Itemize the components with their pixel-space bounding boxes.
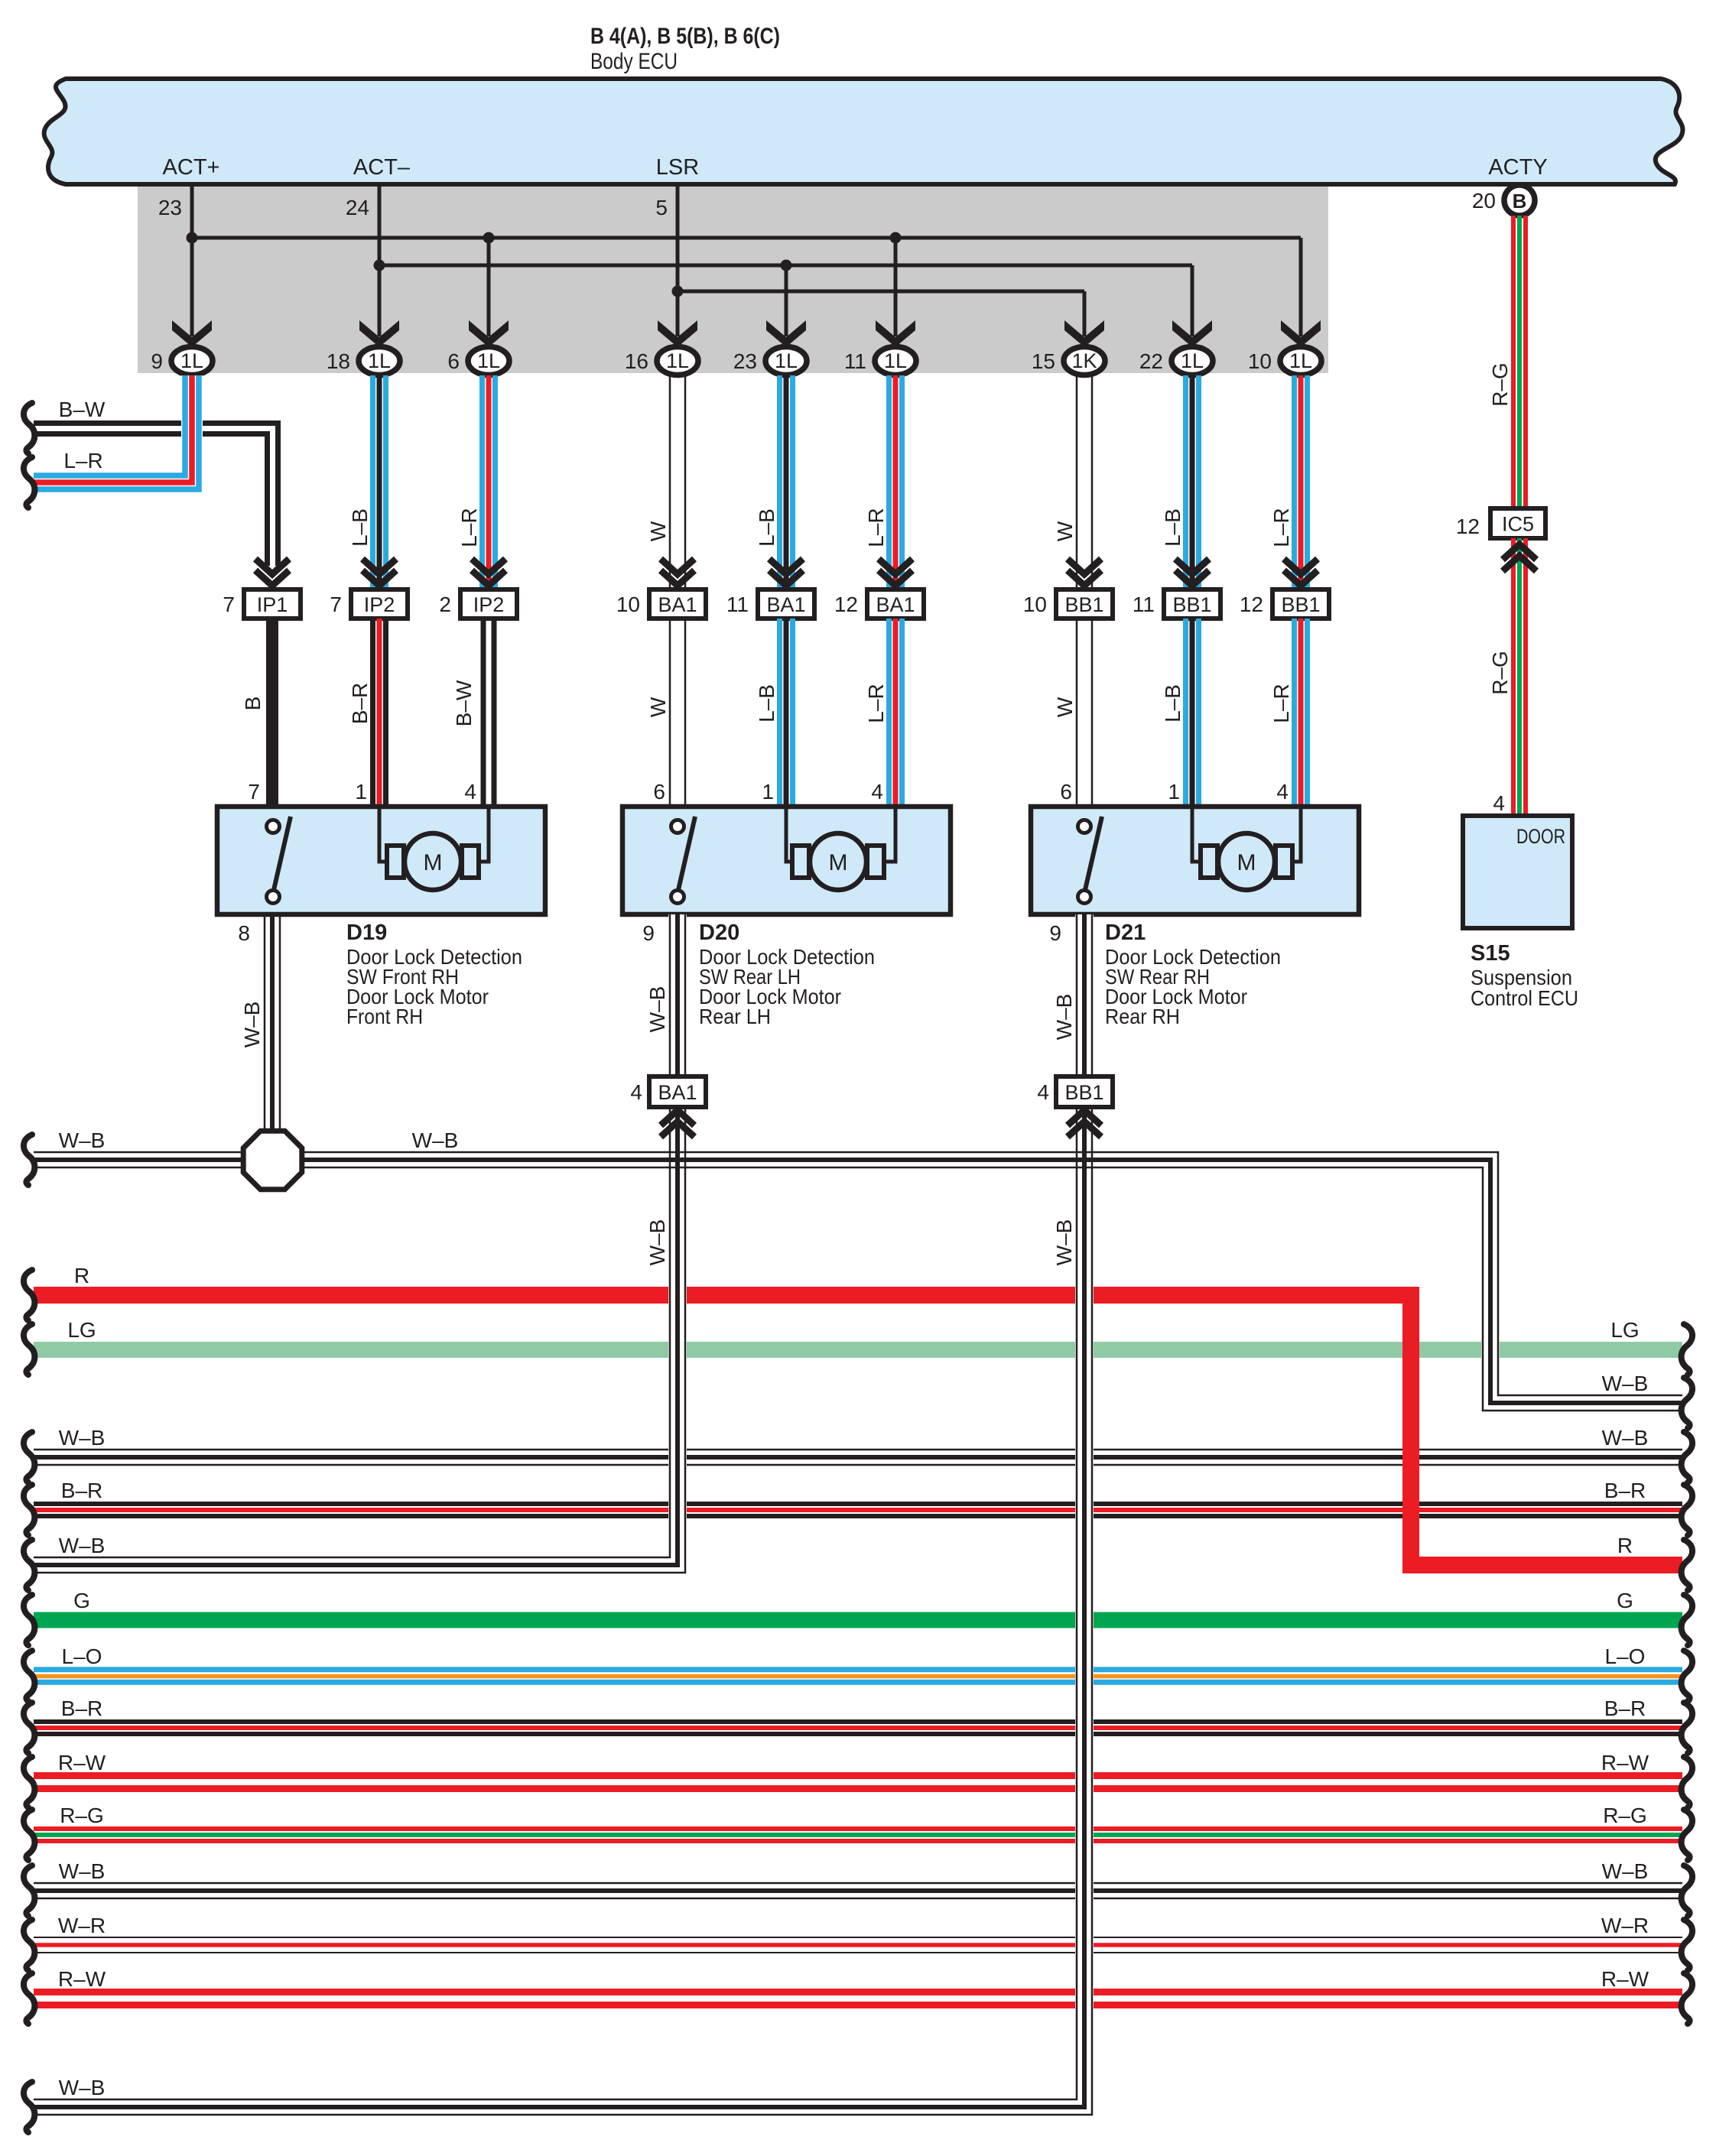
svg-text:9: 9 — [151, 349, 163, 373]
LSR bus wire — [678, 290, 1084, 294]
svg-text:1L: 1L — [775, 349, 798, 372]
ACT+ bus wire — [192, 236, 1301, 240]
arrow into connector at x=1028 — [769, 559, 803, 574]
break symbol B-R left — [24, 1703, 34, 1753]
motor M in D21 — [1201, 846, 1217, 878]
connector BA1 pin 12 — [867, 589, 924, 619]
wire drop to connector pin 10 — [1299, 238, 1303, 336]
svg-text:6: 6 — [447, 349, 460, 373]
svg-text:R–G: R–G — [1488, 362, 1512, 407]
svg-text:BA1: BA1 — [766, 593, 805, 616]
svg-text:24: 24 — [346, 196, 369, 219]
svg-text:Rear RH: Rear RH — [1105, 1005, 1180, 1028]
connector 1L pin 22 — [1172, 347, 1213, 375]
pin 24 wire stub — [378, 184, 382, 265]
svg-text:4: 4 — [871, 780, 883, 804]
break symbol W-B left — [24, 1865, 34, 1916]
svg-text:B–R: B–R — [1604, 1479, 1646, 1502]
connector 1L pin 11 — [875, 347, 916, 375]
break symbol W-R right — [1682, 1920, 1692, 1970]
break symbol W-R left — [24, 1920, 34, 1970]
arrow into connector at x=1418 — [1068, 559, 1101, 574]
connector IC5 pin 12 — [1490, 508, 1545, 538]
svg-text:IC5: IC5 — [1502, 513, 1534, 536]
svg-text:B–R: B–R — [61, 1697, 102, 1720]
svg-text:4: 4 — [1037, 1080, 1049, 1104]
svg-text:6: 6 — [1060, 780, 1072, 804]
wire B-R row 2 — [34, 1719, 1682, 1724]
svg-text:BB1: BB1 — [1064, 1081, 1103, 1104]
svg-text:IP1: IP1 — [257, 593, 288, 616]
svg-text:16: 16 — [625, 349, 648, 373]
wire W-B row (full width) — [34, 1449, 1682, 1451]
svg-text:DOOR: DOOR — [1516, 825, 1565, 848]
svg-text:BA1: BA1 — [658, 1081, 697, 1104]
svg-text:D20: D20 — [699, 921, 739, 945]
connector 1L pin 6 — [468, 347, 509, 375]
svg-text:W–B: W–B — [59, 2076, 106, 2099]
svg-text:W–B: W–B — [1602, 1859, 1649, 1883]
svg-text:W–B: W–B — [1052, 1219, 1076, 1266]
svg-text:BB1: BB1 — [1172, 593, 1211, 616]
break symbol R right — [1682, 1540, 1692, 1590]
svg-text:W–B: W–B — [1052, 994, 1076, 1041]
wire L-B from 1L-18 to IP2 — [370, 375, 375, 587]
motor wiring in D21 — [1192, 807, 1201, 862]
svg-text:W: W — [646, 521, 670, 541]
wire drop to connector pin 18 — [378, 265, 382, 336]
svg-text:W–B: W–B — [1602, 1372, 1649, 1395]
connector IP1 pin 7 — [244, 589, 301, 619]
wire L-R from 1L-6 to IP2 — [479, 375, 485, 587]
svg-text:L–R: L–R — [864, 683, 888, 722]
break symbol LG left — [24, 1324, 34, 1375]
break symbol R-W right — [1682, 1973, 1692, 2024]
wire W-B from D19 pin 8 to splice — [264, 914, 266, 1137]
wire L-R from BB1 to D21 pin 4 — [1292, 619, 1297, 807]
svg-text:IP2: IP2 — [364, 593, 395, 616]
svg-text:1L: 1L — [884, 349, 907, 372]
ACT- bus wire — [379, 264, 1192, 268]
break symbol LG right — [1682, 1324, 1692, 1375]
break symbol W-B right — [1682, 1432, 1692, 1482]
arrow into BA1-4 — [661, 1110, 694, 1125]
svg-text:ACT+: ACT+ — [163, 155, 220, 180]
arrow into BB1-4 — [1068, 1110, 1101, 1125]
wire B-W entering from left, to IP1 — [34, 424, 278, 567]
splice (octagon) — [243, 1131, 302, 1190]
wire LG row — [34, 1342, 1682, 1358]
svg-text:1: 1 — [1168, 780, 1180, 804]
svg-text:1L: 1L — [180, 349, 203, 372]
svg-text:L–O: L–O — [62, 1645, 102, 1668]
connector BA1 pin 4 — [649, 1076, 706, 1107]
connector IP2 pin 2 — [460, 589, 517, 619]
wire W-B row 3 — [34, 1882, 1682, 1885]
break symbol R left — [24, 1270, 34, 1320]
break symbol B-W — [24, 403, 34, 453]
door lock assembly D21 — [1031, 807, 1359, 914]
pin 5 wire stub — [676, 184, 680, 291]
suspension control ECU S15 — [1463, 816, 1572, 928]
wire G row — [34, 1612, 1682, 1628]
wire R-G row — [34, 1826, 1682, 1831]
wire W from 1K-15 to BB1 — [1076, 375, 1078, 587]
svg-text:L–R: L–R — [457, 508, 481, 547]
break symbol R-W left — [24, 1973, 34, 2024]
svg-text:7: 7 — [248, 780, 260, 804]
wire W-B from D21 via BB1-4 down, turns left to exit — [1075, 914, 1094, 2098]
break symbol W-B left — [24, 1432, 34, 1482]
svg-text:W: W — [646, 696, 670, 717]
arrow into connector at x=356 — [255, 559, 289, 574]
svg-text:R–G: R–G — [60, 1804, 104, 1827]
pin 23 wire stub — [190, 184, 194, 238]
svg-text:1L: 1L — [477, 349, 500, 372]
Body ECU band B4(A)/B5(B)/B6(C) — [44, 79, 1683, 184]
svg-text:1K: 1K — [1071, 349, 1097, 372]
svg-text:11: 11 — [844, 349, 866, 373]
break symbol W-B right exit — [1682, 1378, 1692, 1428]
break symbol G left — [24, 1595, 34, 1645]
wire drop to connector pin 9 — [190, 238, 194, 336]
svg-text:W: W — [1053, 696, 1077, 717]
wire R-G from B-20 to IC5 — [1511, 216, 1516, 508]
svg-text:20: 20 — [1472, 189, 1496, 213]
wire B-R from IP2 to D19 pin 1 — [370, 619, 375, 807]
motor wiring in D20 — [786, 807, 793, 862]
break symbol B-R right — [1682, 1703, 1692, 1753]
svg-text:W–B: W–B — [645, 1219, 669, 1266]
wire R-W row 2 — [34, 1989, 1682, 1995]
connector B pin 20 (ACTY) — [1518, 184, 1522, 188]
wire L-B from 1L-23 to BA1 — [777, 375, 782, 587]
svg-text:R–G: R–G — [1603, 1804, 1647, 1827]
wire W-B from D20 via BA1-4 down, turns left to exit — [668, 914, 687, 1560]
svg-text:Body ECU: Body ECU — [590, 49, 678, 74]
break symbol L-O left — [24, 1651, 34, 1701]
wire W from BB1 to D21 pin 6 — [1076, 619, 1078, 807]
svg-text:G: G — [73, 1589, 90, 1612]
svg-text:9: 9 — [1049, 921, 1061, 945]
wire L-O row — [34, 1667, 1682, 1672]
svg-text:Control ECU: Control ECU — [1471, 986, 1578, 1010]
wire drop to connector pin 16 — [676, 291, 680, 336]
svg-text:R: R — [74, 1264, 89, 1287]
svg-text:4: 4 — [1276, 780, 1289, 804]
svg-text:LG: LG — [67, 1318, 96, 1342]
svg-text:15: 15 — [1032, 349, 1055, 373]
arrowhead into connector pin 6 — [469, 320, 509, 347]
svg-text:22: 22 — [1139, 349, 1163, 373]
connector 1L pin 10 — [1280, 347, 1321, 375]
svg-text:L–B: L–B — [1161, 508, 1185, 547]
connector BB1 pin 12 — [1272, 589, 1329, 619]
arrow into connector at x=1559 — [1175, 559, 1209, 574]
svg-text:B 4(A), B 5(B), B 6(C): B 4(A), B 5(B), B 6(C) — [590, 24, 780, 49]
svg-text:9: 9 — [642, 921, 655, 945]
svg-text:10: 10 — [616, 593, 640, 616]
svg-text:B: B — [241, 696, 265, 711]
svg-text:2: 2 — [439, 593, 451, 616]
wire W from BA1 to D20 pin 6 — [669, 619, 671, 807]
wire drop to connector pin 22 — [1191, 265, 1194, 336]
connector 1L pin 23 — [765, 347, 807, 375]
svg-text:W–B: W–B — [240, 1002, 264, 1048]
arrow into connector at x=496 — [362, 559, 396, 574]
wire B-W from IP2 to D19 pin 4 — [481, 619, 486, 807]
svg-text:1L: 1L — [1181, 349, 1204, 372]
arrow into connector at x=886 — [661, 559, 694, 574]
svg-text:G: G — [1617, 1589, 1633, 1612]
svg-text:R–W: R–W — [58, 1751, 106, 1774]
break symbol W-B right — [1682, 1865, 1692, 1916]
svg-text:8: 8 — [238, 921, 250, 945]
svg-text:12: 12 — [1240, 593, 1263, 616]
svg-text:BA1: BA1 — [658, 593, 697, 616]
svg-text:11: 11 — [1133, 593, 1155, 616]
svg-text:R–G: R–G — [1488, 651, 1512, 695]
svg-text:S15: S15 — [1471, 941, 1510, 966]
svg-text:18: 18 — [327, 349, 350, 373]
svg-text:ACTY: ACTY — [1488, 155, 1547, 180]
svg-text:L–B: L–B — [755, 684, 778, 722]
svg-text:LG: LG — [1610, 1318, 1639, 1342]
door lock assembly D19 — [217, 807, 545, 914]
svg-text:R: R — [1617, 1534, 1633, 1557]
connector 1L pin 16 — [657, 347, 698, 375]
svg-text:5: 5 — [655, 196, 668, 219]
break symbol L-R — [24, 457, 34, 508]
wire L-R from 1L-11 to BA1 — [886, 375, 892, 587]
svg-text:Rear LH: Rear LH — [699, 1005, 771, 1028]
svg-text:D19: D19 — [346, 921, 387, 945]
svg-text:4: 4 — [464, 780, 476, 804]
wire W-R row — [34, 1937, 1682, 1938]
arrowhead into connector pin 15 — [1064, 320, 1104, 347]
break symbol R-W right — [1682, 1757, 1692, 1807]
svg-text:L–R: L–R — [864, 508, 888, 547]
motor M in D20 — [792, 846, 809, 878]
svg-text:D21: D21 — [1105, 921, 1146, 945]
svg-text:6: 6 — [653, 780, 665, 804]
svg-text:LSR: LSR — [656, 155, 699, 180]
break symbol W-B splice row left — [24, 1135, 34, 1185]
svg-text:B–R: B–R — [348, 683, 372, 724]
connector BB1 pin 10 — [1056, 589, 1113, 619]
svg-text:7: 7 — [330, 593, 342, 616]
svg-text:L–R: L–R — [1269, 683, 1293, 722]
break symbol R-G left — [24, 1810, 34, 1860]
switch in D20 — [678, 817, 695, 890]
wire L-R from 1L-10 to BB1 — [1292, 375, 1297, 587]
svg-text:23: 23 — [733, 349, 757, 373]
arrowhead into connector pin 11 — [876, 320, 915, 347]
break symbol R-G right — [1682, 1810, 1692, 1860]
svg-text:W–B: W–B — [645, 986, 669, 1033]
svg-text:BB1: BB1 — [1281, 593, 1320, 616]
svg-text:4: 4 — [630, 1080, 642, 1104]
wire drop to connector pin 11 — [894, 238, 898, 336]
break symbol B-R left — [24, 1485, 34, 1535]
svg-text:L–B: L–B — [348, 508, 372, 547]
svg-text:B–W: B–W — [59, 398, 106, 421]
arrow into connector at x=639 — [472, 559, 505, 574]
svg-text:L–R: L–R — [63, 449, 102, 472]
svg-text:W–B: W–B — [59, 1128, 106, 1152]
svg-text:R–W: R–W — [58, 1967, 106, 1991]
svg-text:10: 10 — [1248, 349, 1272, 373]
wire W-B splice row from left through splice, to right exit — [1481, 1169, 1500, 1403]
connector 1K pin 15 — [1064, 347, 1105, 375]
arrowhead into connector pin 23 — [766, 320, 806, 347]
svg-text:B–R: B–R — [61, 1479, 102, 1502]
svg-text:W–R: W–R — [1601, 1914, 1649, 1937]
connector 1L pin 9 — [171, 347, 213, 375]
wire B-R row 1 — [34, 1502, 1682, 1506]
wire drop to connector pin 6 — [487, 238, 491, 336]
svg-text:12: 12 — [1456, 515, 1480, 538]
arrowhead into connector pin 22 — [1172, 320, 1212, 347]
svg-text:W–R: W–R — [58, 1914, 106, 1937]
svg-text:IP2: IP2 — [473, 593, 505, 616]
break symbol W-B left — [24, 1540, 34, 1590]
svg-text:1: 1 — [762, 780, 774, 804]
arrowhead into connector pin 9 — [172, 320, 212, 347]
svg-text:ACT–: ACT– — [353, 155, 411, 180]
arrowhead into connector pin 16 — [658, 320, 697, 347]
svg-text:4: 4 — [1493, 791, 1505, 815]
svg-text:M: M — [1237, 850, 1256, 875]
svg-text:1: 1 — [355, 780, 367, 804]
svg-text:W–B: W–B — [59, 1426, 106, 1450]
connector BA1 pin 10 — [649, 589, 706, 619]
svg-text:BA1: BA1 — [876, 593, 915, 616]
wire drop to connector pin 15 — [1083, 291, 1087, 336]
connector BB1 pin 11 — [1164, 589, 1220, 619]
svg-text:1L: 1L — [1289, 349, 1312, 372]
wire L-B from BA1 to D20 pin 1 — [777, 619, 782, 807]
svg-text:L–B: L–B — [755, 508, 778, 547]
wire B from IP1 to D19 pin 7 — [266, 619, 278, 807]
svg-text:Front RH: Front RH — [346, 1005, 423, 1028]
svg-text:W–B: W–B — [1602, 1426, 1649, 1450]
svg-text:L–B: L–B — [1161, 684, 1185, 722]
svg-text:W–B: W–B — [412, 1128, 459, 1152]
arrow into connector at x=1701 — [1284, 559, 1318, 574]
wire R-W row 1 — [34, 1772, 1682, 1779]
svg-text:W–B: W–B — [59, 1859, 106, 1883]
connector IP2 pin 7 — [351, 589, 408, 619]
svg-text:M: M — [829, 850, 848, 875]
svg-text:12: 12 — [834, 593, 858, 616]
svg-text:L–R: L–R — [1269, 508, 1293, 547]
connector 1L pin 18 — [359, 347, 400, 375]
break symbol W-B bottom left — [24, 2082, 34, 2132]
svg-text:B: B — [1513, 190, 1527, 213]
svg-text:BB1: BB1 — [1064, 593, 1103, 616]
break symbol G right — [1682, 1595, 1692, 1645]
arrowhead into connector pin 10 — [1281, 320, 1321, 347]
wire R row (left to right, turns down) — [34, 1295, 1682, 1565]
break symbol R-W left — [24, 1757, 34, 1807]
break symbol L-O right — [1682, 1651, 1692, 1701]
svg-text:W: W — [1053, 521, 1077, 541]
wire W from 1L-16 to BA1 — [669, 375, 671, 587]
svg-text:R–W: R–W — [1601, 1751, 1649, 1774]
harness junction area (gray) — [138, 187, 1328, 373]
wire L-R from connector 1L-9 exiting left — [181, 375, 203, 492]
arrow into connector at x=1171 — [879, 559, 912, 574]
svg-text:10: 10 — [1023, 593, 1047, 616]
svg-text:L–O: L–O — [1605, 1645, 1646, 1668]
arrowhead into connector pin 18 — [359, 320, 399, 347]
wire R-G from IC5 to S15 — [1511, 538, 1516, 816]
connector BA1 pin 11 — [758, 589, 814, 619]
svg-text:1L: 1L — [666, 349, 689, 372]
motor wiring in D19 — [379, 807, 388, 862]
svg-text:B–W: B–W — [452, 680, 476, 726]
motor M in D19 — [387, 846, 404, 878]
door lock assembly D20 — [622, 807, 951, 914]
svg-text:7: 7 — [223, 593, 235, 616]
svg-text:M: M — [424, 850, 443, 875]
switch in D21 — [1085, 817, 1102, 890]
arrow into IC5 — [1503, 544, 1536, 560]
svg-text:R–W: R–W — [1601, 1967, 1649, 1991]
break symbol B-R right — [1682, 1485, 1692, 1535]
svg-text:1L: 1L — [368, 349, 391, 372]
wire L-R from BA1 to D20 pin 4 — [886, 619, 892, 807]
wire L-B from BB1 to D21 pin 1 — [1183, 619, 1188, 807]
switch in D19 — [274, 817, 291, 890]
svg-text:23: 23 — [158, 196, 182, 219]
svg-text:11: 11 — [726, 593, 749, 616]
svg-text:B–R: B–R — [1604, 1697, 1646, 1720]
wire L-B from 1L-22 to BB1 — [1183, 375, 1188, 587]
svg-text:W–B: W–B — [59, 1534, 106, 1557]
wire drop to connector pin 23 — [785, 265, 788, 336]
connector BB1 pin 4 — [1056, 1076, 1113, 1107]
